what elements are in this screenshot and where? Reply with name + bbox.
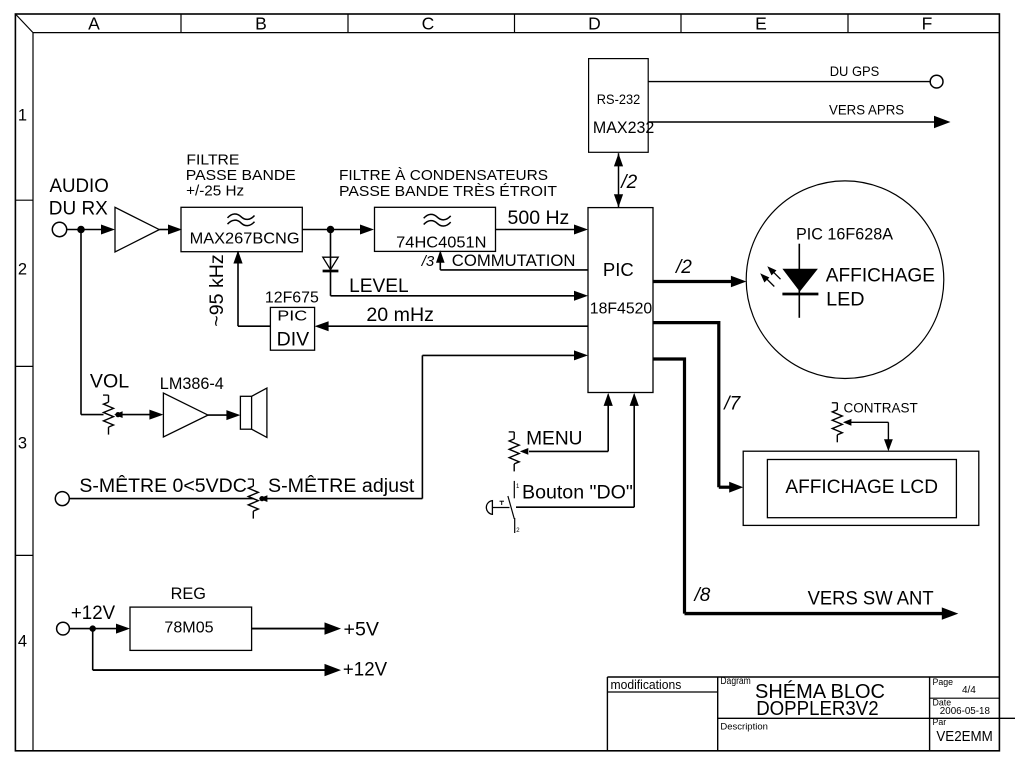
svg-text:Page: Page xyxy=(933,677,954,687)
svg-text:4/4: 4/4 xyxy=(962,685,976,696)
svg-text:+12V: +12V xyxy=(343,659,387,681)
svg-text:PIC: PIC xyxy=(603,259,634,280)
svg-text:Par: Par xyxy=(933,717,947,727)
svg-text:DU RX: DU RX xyxy=(49,198,108,220)
svg-text:modifications: modifications xyxy=(611,677,682,692)
svg-text:VERS SW ANT: VERS SW ANT xyxy=(808,588,934,610)
svg-text:E: E xyxy=(755,13,767,33)
svg-text:D: D xyxy=(588,13,601,33)
svg-text:MENU: MENU xyxy=(526,427,582,449)
svg-text:PIC: PIC xyxy=(277,308,307,325)
svg-text:FILTRE À CONDENSATEURS: FILTRE À CONDENSATEURS xyxy=(339,167,548,184)
svg-text:AFFICHAGE: AFFICHAGE xyxy=(826,264,935,286)
svg-text:C: C xyxy=(422,13,435,33)
svg-text:VE2EMM: VE2EMM xyxy=(936,729,992,745)
svg-text:/3: /3 xyxy=(421,253,435,270)
svg-text:74HC4051N: 74HC4051N xyxy=(396,234,486,251)
svg-text:CONTRAST: CONTRAST xyxy=(844,401,918,416)
svg-text:1: 1 xyxy=(18,106,27,124)
svg-text:/2: /2 xyxy=(619,172,637,193)
svg-text:2: 2 xyxy=(18,260,27,278)
svg-text:/7: /7 xyxy=(722,393,741,414)
svg-text:3: 3 xyxy=(18,434,27,452)
svg-text:2006-05-18: 2006-05-18 xyxy=(940,706,991,717)
svg-text:LM386-4: LM386-4 xyxy=(160,375,224,393)
svg-text:18F4520: 18F4520 xyxy=(590,301,652,318)
svg-text:DOPPLER3V2: DOPPLER3V2 xyxy=(756,697,878,720)
svg-text:4: 4 xyxy=(18,633,27,651)
svg-text:MAX267BCNG: MAX267BCNG xyxy=(190,230,300,247)
svg-text:F: F xyxy=(922,13,933,33)
svg-text:LEVEL: LEVEL xyxy=(349,275,409,297)
svg-text:~95 kHz: ~95 kHz xyxy=(206,254,228,326)
svg-text:LED: LED xyxy=(826,289,864,311)
svg-text:DIV: DIV xyxy=(277,330,310,351)
svg-text:S-MÊTRE 0<5VDC: S-MÊTRE 0<5VDC xyxy=(79,474,246,497)
svg-text:Dagram: Dagram xyxy=(720,676,750,687)
svg-text:REG: REG xyxy=(171,585,206,603)
svg-text:VOL: VOL xyxy=(90,371,129,393)
svg-text:VERS APRS: VERS APRS xyxy=(829,101,904,117)
svg-text:AUDIO: AUDIO xyxy=(50,175,109,197)
svg-text:78M05: 78M05 xyxy=(164,619,213,637)
svg-text:FILTRE: FILTRE xyxy=(186,151,239,168)
svg-text:Bouton "DO": Bouton "DO" xyxy=(522,481,633,503)
svg-text:PIC 16F628A: PIC 16F628A xyxy=(796,225,893,243)
svg-text:PASSE BANDE TRÈS ÉTROIT: PASSE BANDE TRÈS ÉTROIT xyxy=(339,183,557,200)
svg-text:A: A xyxy=(88,13,100,33)
svg-text:COMMUTATION: COMMUTATION xyxy=(452,251,576,270)
svg-text:+12V: +12V xyxy=(71,602,115,624)
svg-text:+/-25 Hz: +/-25 Hz xyxy=(186,183,244,200)
svg-text:AFFICHAGE LCD: AFFICHAGE LCD xyxy=(785,477,938,498)
svg-text:MAX232: MAX232 xyxy=(593,119,654,137)
svg-text:B: B xyxy=(255,13,267,33)
svg-text:+5V: +5V xyxy=(344,619,379,641)
svg-text:S-MÊTRE adjust: S-MÊTRE adjust xyxy=(268,474,415,497)
svg-text:20 mHz: 20 mHz xyxy=(366,304,434,326)
svg-text:RS-232: RS-232 xyxy=(597,92,640,107)
svg-text:/2: /2 xyxy=(674,257,692,278)
svg-text:500 Hz: 500 Hz xyxy=(508,207,570,229)
svg-text:12F675: 12F675 xyxy=(265,290,319,307)
svg-text:PASSE BANDE: PASSE BANDE xyxy=(186,167,296,184)
svg-text:Description: Description xyxy=(720,722,768,733)
svg-text:/8: /8 xyxy=(693,585,711,606)
svg-text:DU GPS: DU GPS xyxy=(830,63,880,79)
